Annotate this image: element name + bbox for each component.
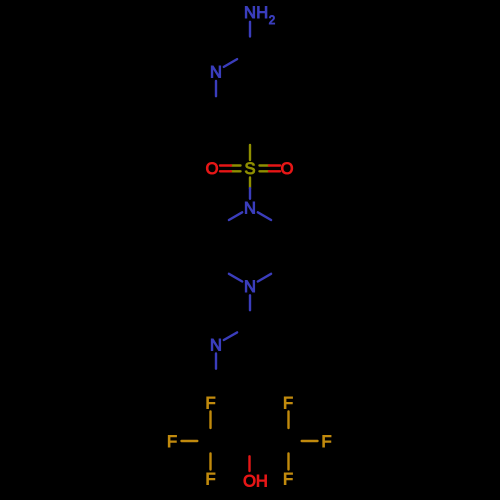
svg-text:H: H <box>256 472 268 490</box>
wire S=O right double bond <box>260 164 270 166</box>
svg-text:F: F <box>205 394 215 412</box>
svg-text:O: O <box>206 160 219 178</box>
wire F4-C bond <box>287 412 289 429</box>
wire N1-C2 bond <box>224 59 237 67</box>
wire NH2-C2 bond <box>249 22 251 37</box>
svg-text:O: O <box>281 160 294 178</box>
wire F6-C bond <box>287 454 289 470</box>
svg-text:F: F <box>321 433 331 451</box>
wire N8-C9 bond <box>215 354 217 369</box>
wire N8-C7 bond <box>224 332 237 340</box>
svg-text:2: 2 <box>269 15 275 27</box>
wire S=O left double bond <box>231 164 241 166</box>
svg-text:F: F <box>283 471 293 489</box>
wire S-N piperazine bond <box>249 178 251 189</box>
wire N4'-C3' bond <box>258 274 271 282</box>
svg-text:N: N <box>210 63 222 81</box>
svg-text:F: F <box>283 394 293 412</box>
svg-text:F: F <box>167 433 177 451</box>
wire F5-C bond <box>302 440 318 442</box>
svg-text:N: N <box>244 200 256 218</box>
wire F2-C bond <box>182 440 198 442</box>
svg-text:N: N <box>210 336 222 354</box>
wire OH-C bond <box>248 456 250 471</box>
wire C5-S bond <box>249 145 251 160</box>
wire N4'-C7 bond <box>249 295 251 310</box>
svg-text:F: F <box>205 471 215 489</box>
svg-text:N: N <box>244 4 256 22</box>
wire F3-C bond <box>209 454 211 470</box>
wire N1'-C6' bond <box>229 212 242 220</box>
wire N1-C6 bond <box>215 81 217 96</box>
svg-text:H: H <box>256 4 268 22</box>
wire N4'-C5' bond <box>229 274 242 282</box>
wire F1-C bond <box>209 412 211 429</box>
wire N1'-C2' bond <box>258 212 271 220</box>
svg-text:O: O <box>243 472 256 490</box>
svg-text:S: S <box>244 160 255 178</box>
svg-text:N: N <box>244 278 256 296</box>
